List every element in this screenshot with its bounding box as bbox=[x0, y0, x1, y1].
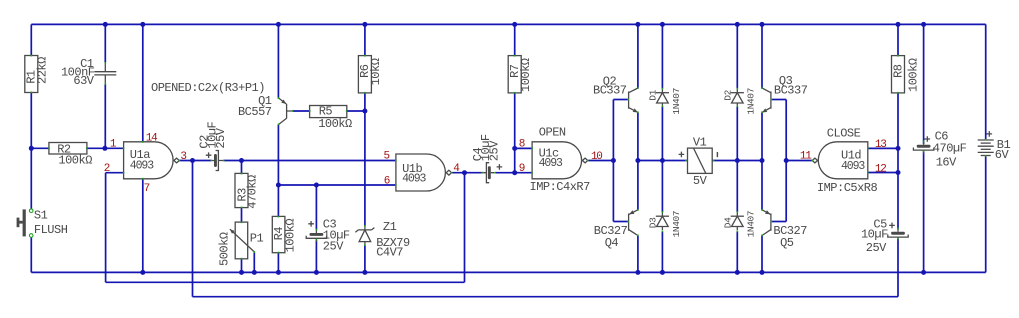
svg-text:BC337: BC337 bbox=[774, 84, 808, 98]
svg-text:D4: D4 bbox=[722, 217, 733, 228]
svg-text:FLUSH: FLUSH bbox=[34, 223, 68, 237]
svg-text:12: 12 bbox=[875, 163, 886, 175]
resistor R7 100k bbox=[508, 55, 533, 94]
junction C2/R3/pin5 node bbox=[239, 158, 244, 163]
wire: U1a output drop to C5 bus bbox=[192, 161, 194, 297]
wire: Q3 base stub bbox=[772, 99, 786, 101]
junction Q1 collector/R4/pin6 node bbox=[276, 183, 281, 188]
wire: Q5 collector to ground rail bbox=[761, 236, 763, 273]
battery B1 6V bbox=[978, 131, 1011, 162]
wire: R7 bottom to pin8 node bbox=[514, 93, 516, 148]
potentiometer P1 500k bbox=[217, 222, 263, 267]
wire: node to R2 left bbox=[31, 147, 49, 149]
junction U1d pin12 node bbox=[896, 170, 901, 175]
resistor R2 100k bbox=[48, 142, 92, 167]
junction D2/D4 on V1- node bbox=[735, 158, 740, 163]
wire: pin6 net down to C3 + bbox=[315, 185, 317, 229]
junction U1b output node bbox=[462, 170, 467, 175]
wire: D3 anode to ground rail bbox=[661, 232, 663, 273]
junction R7/U1c pin8 node bbox=[512, 146, 517, 151]
wire: P1 bottom to ground rail bbox=[241, 259, 243, 273]
svg-text:25V: 25V bbox=[866, 241, 887, 255]
wire: Q2 emitter to V1+ node bbox=[637, 113, 639, 161]
wire: Q4 collector to ground rail bbox=[637, 236, 639, 273]
svg-text:6V: 6V bbox=[995, 148, 1010, 162]
junction on supply rail x=923.6 bbox=[921, 22, 926, 27]
svg-text:11: 11 bbox=[800, 151, 812, 163]
junction on supply rail x=142.8 bbox=[140, 22, 145, 27]
wire: +6V top supply rail bbox=[31, 23, 985, 25]
wire: C6 - to ground rail bbox=[923, 151, 925, 272]
wire: bus U1a output to C5 bottom bbox=[193, 296, 899, 298]
junction on ground rail x=316.4 bbox=[314, 270, 319, 275]
transistor Q5 BC327 PNP (low-side right) bbox=[761, 209, 807, 250]
junction on supply rail x=737.3 bbox=[735, 22, 740, 27]
wire: Q2/Q4 emitters to D1 node bbox=[638, 160, 663, 162]
op-amp U1d NAND gate 4093 (mirrored) bbox=[811, 142, 868, 179]
wire: R8 top to supply rail bbox=[897, 24, 899, 55]
svg-text:5: 5 bbox=[384, 151, 390, 163]
wire: R5 to R6 node bbox=[347, 110, 365, 112]
junction U1c out on Q2/Q4 base line bbox=[611, 158, 616, 163]
resistor R5 100k (Q1 base) bbox=[309, 104, 352, 131]
wire: node to R4 top bbox=[277, 185, 279, 216]
junction on supply rail x=662.4 bbox=[660, 22, 665, 27]
wire: C1 to R2/pin1 node bbox=[104, 84, 106, 148]
svg-text:100kΩ: 100kΩ bbox=[318, 117, 352, 131]
svg-text:22kΩ: 22kΩ bbox=[35, 57, 49, 84]
junction on ground rail x=278.4 bbox=[276, 270, 281, 275]
wire: Q2/Q4 base tie line bbox=[612, 100, 614, 222]
wire: supply rail to D2 cathode bbox=[736, 24, 738, 88]
wire: S1 to ground rail bbox=[30, 237, 32, 272]
svg-text:10kΩ: 10kΩ bbox=[369, 58, 383, 85]
wire: Q5 base stub bbox=[772, 221, 786, 223]
svg-text:V1: V1 bbox=[693, 136, 707, 150]
transistor Q1 BC557 PNP bbox=[238, 94, 293, 125]
transistor Q4 BC327 PNP (low-side left) bbox=[594, 209, 639, 250]
resistor R8 100k bbox=[891, 55, 920, 94]
op-amp U1b NAND gate 4093 bbox=[395, 154, 452, 191]
junction on ground rail x=737.3 bbox=[735, 270, 740, 275]
wire: Q1 collector down to pin6 node bbox=[277, 125, 279, 185]
diode D2 1N407 (flyback to +rail) bbox=[722, 88, 756, 115]
wire: U1d pin12 to node bbox=[868, 172, 898, 174]
resistor R1 22k bbox=[25, 55, 50, 93]
capacitor C2 10uF 25V (timing, on U1a output) bbox=[197, 121, 228, 170]
transistor Q2 BC337 NPN (high-side left) bbox=[593, 74, 639, 113]
svg-text:63V: 63V bbox=[73, 74, 94, 88]
svg-text:2: 2 bbox=[104, 163, 110, 175]
wire: left rail down to R1 bbox=[30, 24, 32, 55]
junction on supply rail x=514.7 bbox=[512, 22, 517, 27]
wire: U1d output pin11 bbox=[786, 160, 812, 162]
svg-text:1N407: 1N407 bbox=[671, 88, 682, 115]
junction C4/U1c pin9 node bbox=[512, 170, 517, 175]
capacitor C1 100nF 63V bbox=[61, 57, 116, 88]
svg-text:500kΩ: 500kΩ bbox=[217, 232, 231, 266]
wire: D2 node to Q3/Q5 emitters bbox=[737, 160, 762, 162]
wire: R3 bottom to P1 top bbox=[241, 208, 243, 223]
wire: V1- node to Q5 emitter bbox=[761, 161, 763, 210]
svg-text:9: 9 bbox=[519, 163, 525, 175]
junction on supply rail x=898 bbox=[896, 22, 901, 27]
junction U1a output node bbox=[190, 158, 195, 163]
wire: supply rail to Q2 collector bbox=[637, 24, 639, 87]
resistor R3 470k bbox=[235, 173, 259, 209]
wire: V1 - terminal to node bbox=[712, 160, 737, 162]
wire: B1 - down to ground rail bbox=[985, 156, 987, 272]
junction on supply rail x=105.3 bbox=[103, 22, 108, 27]
junction on supply rail x=762 bbox=[760, 22, 765, 27]
wire: R2 right to U1a pin1 bbox=[87, 147, 124, 149]
svg-text:D1: D1 bbox=[647, 89, 658, 100]
wire: C3 - to ground rail bbox=[315, 240, 317, 273]
wire: to Q4 base bbox=[613, 221, 628, 223]
wire: right rail down to B1 + bbox=[985, 24, 987, 139]
svg-text:13: 13 bbox=[875, 139, 886, 151]
svg-text:1N407: 1N407 bbox=[746, 88, 757, 115]
svg-text:1N407: 1N407 bbox=[671, 211, 682, 238]
svg-text:100kΩ: 100kΩ bbox=[906, 58, 920, 92]
wire: U1d pin13 to R8 node bbox=[868, 147, 898, 149]
svg-text:4093: 4093 bbox=[841, 160, 865, 173]
junction R8/U1d pin13 node bbox=[896, 146, 901, 151]
junction on supply rail x=278.4 bbox=[276, 22, 281, 27]
wire: V1+ node to D3 cathode bbox=[661, 161, 663, 213]
wire: Z1 anode to ground rail bbox=[364, 245, 366, 272]
wire: U1a pin7 to ground rail bbox=[142, 179, 144, 273]
svg-text:4093: 4093 bbox=[539, 157, 563, 170]
svg-text:C4V7: C4V7 bbox=[376, 245, 403, 259]
wire: Q3/Q5 base tie line bbox=[785, 100, 787, 222]
junction on ground rail x=923.6 bbox=[921, 270, 926, 275]
wire: supply rail to R7 bbox=[514, 24, 516, 55]
wire: bus up to U1b output bbox=[464, 173, 466, 283]
svg-text:1N407: 1N407 bbox=[746, 211, 757, 238]
junction C1/R2/U1a pin1 node bbox=[102, 146, 107, 151]
wire: C5 + up to U1d pins/R8 bbox=[897, 148, 899, 229]
resistor R6 10k bbox=[358, 55, 383, 94]
svg-text:BC557: BC557 bbox=[238, 105, 272, 119]
wire: C4 + to R7 node to U1c pin9 bbox=[495, 172, 532, 174]
wire: U1b output to C4 - bbox=[452, 172, 483, 174]
diode D3 1N407 (flyback to ground) bbox=[647, 211, 681, 238]
capacitor C6 470uF 16V (supply reservoir) bbox=[913, 129, 966, 169]
wire: Q1 base to R5 bbox=[293, 110, 310, 112]
transistor Q3 BC337 NPN (high-side right) bbox=[761, 74, 808, 113]
svg-text:100kΩ: 100kΩ bbox=[58, 154, 92, 168]
wire: feedback bus U1b out to U1a pin2 bbox=[106, 281, 465, 283]
wire: supply rail to D1 cathode bbox=[661, 24, 663, 88]
capacitor C5 10uF 25V (impulse, U1d inputs) bbox=[861, 218, 908, 255]
wire: pin2 drop to feedback bus bbox=[105, 173, 107, 283]
wire: top rail to U1a pin14 bbox=[142, 24, 144, 141]
wire: supply rail to C6 + bbox=[923, 24, 925, 143]
wire: D4 anode to ground rail bbox=[736, 232, 738, 273]
junction Q2/Q4 emitters V1+ node bbox=[635, 158, 640, 163]
junction on ground rail x=254.3 bbox=[252, 270, 257, 275]
wire: U1a pin2 stub bbox=[106, 172, 124, 174]
svg-text:D2: D2 bbox=[722, 89, 733, 100]
svg-text:D3: D3 bbox=[647, 217, 658, 228]
svg-text:BC337: BC337 bbox=[593, 84, 627, 98]
wire: Q3 emitter to V1- node bbox=[761, 113, 763, 161]
junction on supply rail x=637.9 bbox=[635, 22, 640, 27]
capacitor C3 10uF 25V bbox=[306, 217, 350, 253]
wire: R5/R6 node down to Z1 bbox=[364, 111, 366, 226]
svg-text:16V: 16V bbox=[936, 155, 957, 169]
wire: bus up to C5 - bbox=[897, 239, 899, 297]
svg-text:Q5: Q5 bbox=[780, 236, 794, 250]
wire: node to U1c pin8 bbox=[515, 147, 532, 149]
diode D4 1N407 (flyback to ground) bbox=[722, 211, 756, 238]
wire: node to V1 + terminal bbox=[662, 160, 687, 162]
junction on ground rail x=364.9 bbox=[362, 270, 367, 275]
junction on ground rail x=241.5 bbox=[239, 270, 244, 275]
junction R1/R2/S1 node bbox=[29, 146, 34, 151]
wire: supply rail to Q3 collector bbox=[761, 24, 763, 87]
junction on ground rail x=637.9 bbox=[635, 270, 640, 275]
junction D1/D3 on V1+ node bbox=[660, 158, 665, 163]
wire: pin6 net R4/C3 to U1b pin6 bbox=[278, 184, 396, 186]
op-amp U1c NAND gate 4093 bbox=[531, 142, 588, 179]
wire: node to R3 top bbox=[241, 161, 243, 174]
wire: U1a output to C2 + bbox=[179, 160, 211, 162]
svg-text:CLOSE: CLOSE bbox=[827, 126, 861, 140]
resistor R4 100k bbox=[272, 216, 298, 254]
svg-text:S1: S1 bbox=[34, 209, 48, 223]
svg-text:OPEN: OPEN bbox=[539, 125, 566, 139]
junction on supply rail x=364.9 bbox=[362, 22, 367, 27]
wire: ground/0V bottom rail bbox=[31, 271, 985, 273]
svg-text:3: 3 bbox=[180, 151, 186, 163]
junction Q3/Q5 emitters V1- node bbox=[760, 158, 765, 163]
svg-text:6: 6 bbox=[384, 176, 390, 188]
wire: C2 - to R3 node to U1b pin5 bbox=[224, 160, 396, 162]
svg-text:100kΩ: 100kΩ bbox=[284, 219, 298, 253]
wire: D2 anode to V1- node bbox=[736, 107, 738, 161]
switch S1 FLUSH pushbutton bbox=[17, 209, 68, 238]
wire: V1+ node to Q4 emitter bbox=[637, 161, 639, 210]
svg-text:25V: 25V bbox=[488, 140, 502, 161]
svg-text:25V: 25V bbox=[323, 240, 344, 254]
svg-text:IMP:C4xR7: IMP:C4xR7 bbox=[530, 180, 591, 194]
wire: D1 anode to V1+ node bbox=[661, 107, 663, 161]
wire: pin8 node to pin9 node bbox=[514, 148, 516, 172]
svg-text:470kΩ: 470kΩ bbox=[245, 175, 259, 209]
svg-text:5V: 5V bbox=[693, 174, 708, 188]
svg-text:OPENED:C2x(R3+P1): OPENED:C2x(R3+P1) bbox=[151, 81, 265, 95]
svg-text:Z1: Z1 bbox=[383, 220, 397, 234]
svg-text:R8: R8 bbox=[891, 64, 905, 78]
svg-text:P1: P1 bbox=[250, 231, 264, 245]
junction U1d out on Q3/Q5 base line bbox=[784, 158, 789, 163]
svg-text:470µF: 470µF bbox=[933, 141, 967, 155]
wire: R6 bottom to node bbox=[364, 93, 366, 111]
svg-text:100kΩ: 100kΩ bbox=[519, 58, 533, 92]
wire: R4 bottom to ground rail bbox=[277, 253, 279, 273]
wire: supply rail to R6 bbox=[364, 24, 366, 55]
junction on ground rail x=662.4 bbox=[660, 270, 665, 275]
wire: to Q2 base bbox=[613, 99, 628, 101]
svg-text:25V: 25V bbox=[214, 127, 228, 148]
zener Z1 BZX79 C4V7 bbox=[355, 220, 410, 260]
svg-text:8: 8 bbox=[519, 139, 525, 151]
svg-text:10: 10 bbox=[591, 151, 602, 163]
wire: V1- node to D4 cathode bbox=[736, 161, 738, 213]
wire: R1 bottom to R2/S1 node bbox=[30, 93, 32, 149]
wire: top rail to C1 bbox=[104, 24, 106, 62]
svg-text:4093: 4093 bbox=[130, 160, 154, 173]
wire: supply rail to Q1 emitter bbox=[277, 24, 279, 97]
svg-text:10µF: 10µF bbox=[861, 227, 888, 241]
svg-text:Q4: Q4 bbox=[605, 236, 619, 250]
op-amp U1a NAND gate 4093 bbox=[123, 141, 180, 179]
wire: U1c output pin10 bbox=[589, 160, 614, 162]
wire: node down to S1 bbox=[30, 148, 32, 209]
wire: P1 wiper to ground rail bbox=[253, 252, 255, 273]
svg-text:14: 14 bbox=[146, 132, 158, 144]
diode D1 1N407 (flyback to +rail) bbox=[647, 88, 681, 115]
svg-text:7: 7 bbox=[144, 183, 150, 195]
svg-text:4093: 4093 bbox=[402, 173, 426, 186]
junction C3 on pin6 net bbox=[314, 183, 319, 188]
valve/solenoid V1 5V bbox=[679, 136, 719, 189]
svg-text:IMP:C5xR8: IMP:C5xR8 bbox=[817, 181, 878, 195]
junction on ground rail x=142.8 bbox=[140, 270, 145, 275]
junction on ground rail x=762 bbox=[760, 270, 765, 275]
capacitor C4 10uF 25V (impulse, U1b out to U1c pin9) bbox=[471, 134, 502, 183]
wire: R8 bottom to pin13 node bbox=[897, 93, 899, 148]
junction R5/R6 node bbox=[362, 109, 367, 114]
